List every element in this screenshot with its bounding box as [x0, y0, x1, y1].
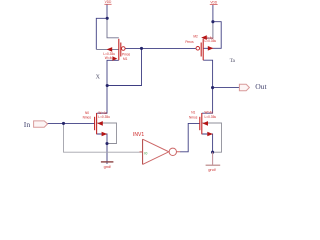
svg-text:VDD: VDD [105, 0, 112, 4]
svg-text:Pmos: Pmos [122, 52, 131, 56]
svg-text:M2: M2 [193, 34, 198, 38]
svg-text:I0: I0 [144, 151, 147, 155]
svg-text:In: In [24, 120, 31, 129]
svg-text:L=0.35u: L=0.35u [205, 39, 217, 43]
svg-text:N0: N0 [85, 111, 89, 115]
svg-text:W=4u: W=4u [105, 56, 114, 60]
svg-text:N1: N1 [191, 110, 195, 114]
svg-text:L=0.35u: L=0.35u [98, 115, 110, 119]
svg-text:Out: Out [255, 82, 267, 91]
svg-text:Pmos: Pmos [185, 40, 194, 44]
svg-text:W=4u: W=4u [205, 110, 214, 114]
svg-text:INV1: INV1 [133, 132, 144, 138]
svg-text:gnd!: gnd! [208, 167, 216, 172]
svg-text:M1: M1 [123, 57, 128, 61]
svg-text:X: X [96, 74, 101, 80]
svg-text:L=0.35u: L=0.35u [205, 115, 217, 119]
svg-text:Ta: Ta [230, 58, 236, 64]
svg-text:Nmos: Nmos [83, 116, 92, 120]
svg-text:VDD: VDD [210, 0, 217, 4]
svg-text:gnd!: gnd! [104, 164, 112, 169]
svg-text:Nmos: Nmos [189, 116, 198, 120]
